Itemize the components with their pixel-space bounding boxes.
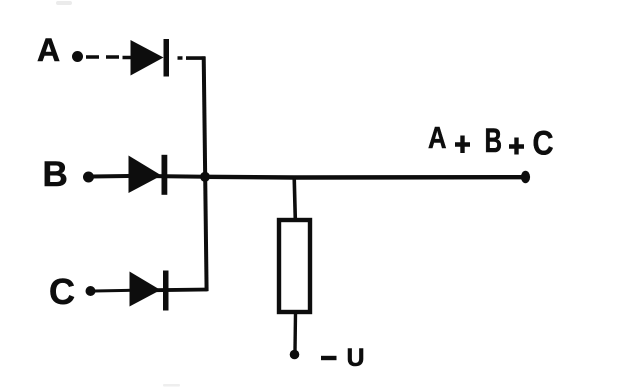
svg-text:C: C: [49, 271, 75, 312]
node C terminal dot: [86, 286, 96, 296]
wire (B terminal to diode D2): [92, 174, 132, 179]
wire (output line, junction to output terminal): [205, 175, 523, 180]
wire (resistor top lead): [294, 178, 295, 220]
wire (dashed, D1 cathode to corner): [178, 56, 206, 60]
output terminal dot: [521, 171, 530, 183]
svg-text:U: U: [347, 344, 365, 372]
label -U: [321, 344, 365, 372]
-U terminal dot: [290, 350, 300, 360]
junction node: [200, 172, 210, 182]
diode D1 (input A): [131, 39, 170, 77]
resistor R1: [279, 220, 310, 312]
smudge (bottom): [163, 384, 180, 387]
node B terminal dot: [83, 172, 94, 183]
svg-text:B: B: [43, 155, 68, 194]
smudge: [56, 1, 72, 5]
label A + B + C: [428, 120, 554, 163]
svg-text:A: A: [428, 120, 447, 155]
wire (D3 cathode to corner, joins vertical bus): [155, 288, 208, 293]
wire (vertical bus from A corner through junction to C corner): [204, 56, 207, 291]
diode D3 (input C): [130, 271, 169, 311]
diode D2 (input B): [129, 155, 168, 195]
svg-text:B: B: [485, 122, 503, 160]
svg-text:C: C: [533, 125, 554, 163]
svg-text:A: A: [37, 32, 60, 68]
wire (resistor bottom lead): [293, 313, 297, 351]
node A terminal dot: [72, 51, 83, 62]
wire (dashed, A terminal to diode D1): [86, 55, 132, 59]
wire (D2 cathode to junction): [156, 174, 206, 179]
wire (C terminal to diode D3): [94, 289, 131, 293]
